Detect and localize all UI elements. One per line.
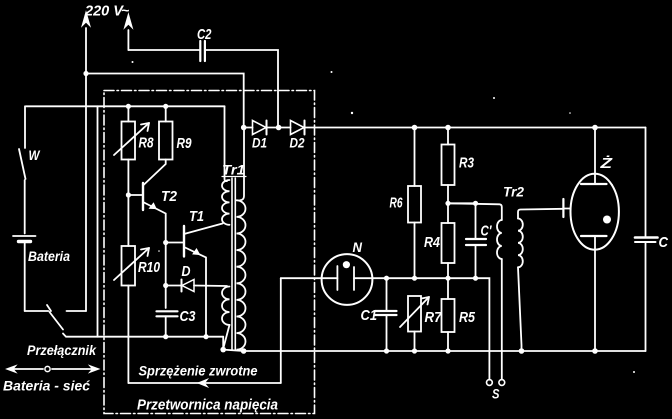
- svg-text:C2: C2: [197, 26, 212, 43]
- svg-text:C: C: [659, 234, 670, 251]
- neon lamp N: [322, 254, 387, 305]
- capacitor C1: [375, 278, 397, 351]
- capacitor C': [466, 203, 486, 278]
- diode D: [166, 280, 227, 292]
- transformer Tr2: [448, 184, 563, 380]
- svg-text:R3: R3: [459, 155, 475, 172]
- battery Bateria: [13, 236, 36, 311]
- svg-text:R8: R8: [139, 135, 155, 152]
- node R3 top: [445, 125, 451, 131]
- resistor R4: [442, 203, 455, 278]
- node C1 top: [384, 276, 389, 281]
- node tube cathode bottom: [592, 348, 598, 354]
- svg-text:T1: T1: [189, 208, 204, 225]
- svg-text:R5: R5: [459, 309, 476, 326]
- wire mid rail: [387, 278, 490, 380]
- wire mains line1 down: [85, 74, 87, 312]
- label 220V mains: [84, 2, 129, 20]
- arrow Bateria-siec selector: [7, 366, 100, 373]
- capacitor C3: [157, 311, 178, 336]
- svg-text:R10: R10: [138, 259, 161, 276]
- svg-text:Przełącznik: Przełącznik: [27, 343, 97, 358]
- resistor R6: [408, 128, 421, 279]
- node mains junction: [83, 71, 88, 76]
- svg-text:Przetwornica napięcia: Przetwornica napięcia: [137, 398, 278, 414]
- wire lamp feed: [281, 277, 338, 279]
- wire feedback riser: [97, 106, 99, 336]
- resistor R10 (variable): [114, 195, 149, 383]
- svg-text:R4: R4: [424, 234, 441, 251]
- switch Przelacznik (battery contact): [25, 310, 49, 312]
- node R5 bottom: [445, 348, 450, 353]
- node T1 emitter bottom: [203, 334, 208, 339]
- transistor T1: [166, 224, 223, 336]
- wire mains top horizontal: [86, 74, 244, 128]
- resistor R9: [144, 106, 173, 185]
- capacitor C2: [200, 41, 205, 61]
- diode D2: [279, 121, 646, 135]
- svg-text:220 V: 220 V: [84, 3, 125, 20]
- node R3 bottom junction: [445, 201, 450, 206]
- tube Z (zarowka/trigatron): [563, 128, 619, 352]
- svg-text:Sprzężenie zwrotne: Sprzężenie zwrotne: [139, 363, 258, 379]
- node C1 bottom: [384, 348, 389, 353]
- svg-text:D: D: [182, 263, 191, 280]
- wire T2/T1 emitter rail: [165, 243, 167, 309]
- wire C2 to rectifier: [205, 50, 278, 128]
- node R9 top: [163, 104, 168, 109]
- svg-text:N: N: [353, 239, 363, 255]
- svg-text:T2: T2: [161, 188, 178, 205]
- mains arrow 2: [124, 14, 132, 50]
- node C' bottom: [473, 276, 478, 281]
- resistor R7 (variable): [400, 296, 429, 351]
- svg-text:C1: C1: [361, 307, 378, 324]
- transformer Tr1: [220, 106, 246, 354]
- svg-text:R6: R6: [390, 195, 403, 212]
- svg-text:D2: D2: [290, 135, 305, 151]
- node T1 base: [163, 240, 168, 245]
- switch Przelacznik blade: [47, 305, 51, 311]
- svg-text:R9: R9: [177, 135, 193, 152]
- wire to C2: [128, 49, 200, 51]
- diode D1: [244, 121, 279, 135]
- svg-text:D1: D1: [252, 135, 267, 151]
- node R7 bottom: [412, 348, 417, 353]
- node Tr2 secondary bottom: [519, 348, 525, 354]
- node tube anode: [592, 125, 598, 131]
- wire converter negative rail: [63, 334, 223, 337]
- svg-text:Bateria - sieć: Bateria - sieć: [3, 378, 90, 394]
- svg-text:W: W: [29, 147, 41, 163]
- svg-text:Bateria: Bateria: [28, 249, 70, 264]
- resistor R5: [442, 278, 455, 351]
- wire feedback line: [128, 278, 280, 387]
- node R4 bottom: [445, 276, 450, 281]
- wire R3-Tr2 top: [448, 202, 476, 204]
- node D1 anode: [241, 125, 247, 131]
- svg-text:C3: C3: [180, 308, 197, 325]
- svg-text:Tr2: Tr2: [503, 184, 524, 200]
- svg-text:Tr1: Tr1: [222, 162, 245, 178]
- svg-text:Ż: Ż: [599, 155, 613, 172]
- mains arrow 1: [82, 12, 90, 74]
- contact S: [487, 380, 505, 386]
- transistor T2: [128, 183, 165, 243]
- node D1-D2 junction: [276, 125, 282, 131]
- svg-text:C′: C′: [481, 223, 493, 240]
- node C3 bottom: [163, 334, 168, 339]
- dashed box Przetwornica napiecia: [104, 91, 315, 414]
- node D anode junction: [163, 283, 168, 288]
- wire bottom rail: [244, 350, 646, 352]
- svg-text:S: S: [492, 386, 500, 402]
- node R6 top: [412, 125, 418, 131]
- node R8 top: [126, 104, 131, 109]
- switch Przelacznik (mains contact): [67, 310, 87, 312]
- switch W: [19, 106, 26, 233]
- node T2 base: [126, 192, 131, 197]
- resistor R8 (variable): [114, 106, 149, 195]
- node C' top: [473, 201, 478, 206]
- resistor R3: [442, 128, 455, 204]
- wire left branch top rail: [26, 105, 225, 107]
- node R6 bottom: [412, 276, 417, 281]
- svg-text:R7: R7: [425, 309, 443, 326]
- capacitor C: [635, 128, 658, 352]
